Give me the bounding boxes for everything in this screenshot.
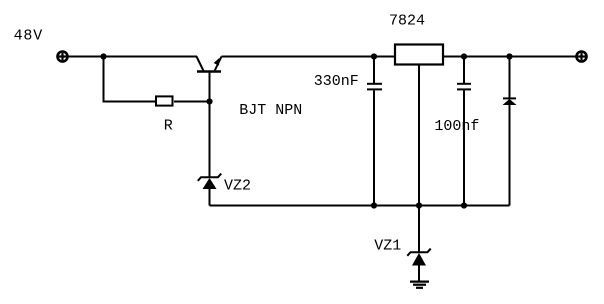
capacitor 100nf [457,57,471,206]
zener VZ2 [198,174,221,206]
transistor Q1 BJT NPN [197,57,222,72]
node 330nF [371,53,377,59]
wire branch down [104,57,156,102]
output terminal [577,52,587,62]
diode D1 [503,57,517,206]
node rail 100nf [461,202,467,208]
svg-text:100nf: 100nf [434,118,479,135]
node rail ground pin [416,202,422,208]
svg-text:VZ2: VZ2 [224,178,251,195]
wire 7824 to output [443,56,576,58]
svg-text:R: R [164,118,173,135]
svg-text:48V: 48V [14,28,43,45]
regulator U1 7824 [395,45,443,65]
resistor R [156,96,173,105]
svg-text:BJT NPN: BJT NPN [239,102,302,119]
node base junction [206,98,212,104]
svg-text:7824: 7824 [389,12,425,29]
svg-text:330nF: 330nF [314,73,359,90]
wire base down to VZ2 [209,72,211,177]
node diode top [506,53,512,59]
svg-text:VZ1: VZ1 [374,238,401,255]
wire input to collector [68,56,198,58]
node rail 330nF [371,202,377,208]
node 100nf [461,53,467,59]
input terminal [58,52,68,62]
zener VZ1 [407,249,430,281]
capacitor 330nF [367,57,382,206]
wire emitter to 7824 [222,56,395,58]
ground [410,282,429,288]
wire 7824 ground pin [418,65,420,252]
wire resistor to base node [174,101,210,103]
node input branch [100,53,106,59]
bottom rail [210,205,510,207]
